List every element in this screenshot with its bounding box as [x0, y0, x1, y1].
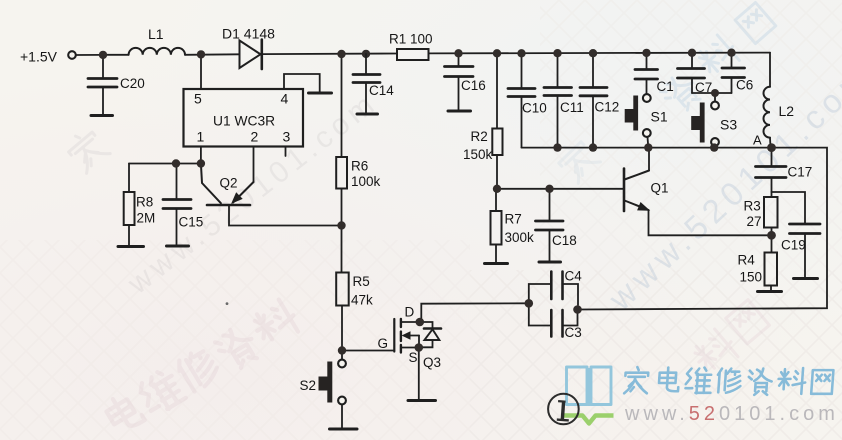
junction R2-R7 node — [493, 185, 501, 193]
junction C7-C6-S3 node — [711, 89, 719, 97]
svg-text:47k: 47k — [351, 293, 373, 308]
switch S1 bars — [633, 96, 638, 131]
capacitor C6 — [731, 53, 733, 68]
wire C7-C6 joint — [692, 92, 732, 94]
junction C14 top node — [362, 50, 370, 58]
junction C15 top node — [172, 159, 180, 167]
svg-text:+1.5V: +1.5V — [20, 49, 58, 65]
input terminal +1.5V — [68, 51, 76, 59]
watermark diagonal url center-right — [601, 55, 842, 318]
junction C6 top node — [727, 49, 735, 57]
wire U1 pin1 down — [200, 147, 202, 164]
svg-text:D1 4148: D1 4148 — [222, 26, 275, 42]
capacitor C19 — [772, 192, 806, 224]
svg-text:Q1: Q1 — [651, 181, 669, 196]
svg-text:www.520101.com: www.520101.com — [624, 403, 839, 425]
capacitor C1 — [646, 53, 648, 69]
svg-text:R1 100: R1 100 — [389, 32, 433, 47]
svg-text:1: 1 — [197, 129, 205, 145]
wire R1 to bus right — [429, 52, 771, 55]
junction C7 top node — [688, 49, 696, 57]
junction C4-C3 left node — [525, 299, 534, 308]
svg-text:C7: C7 — [695, 80, 712, 95]
svg-text:R4: R4 — [738, 253, 756, 268]
svg-text:C3: C3 — [565, 325, 582, 340]
transistor Q3 mosfet — [393, 319, 395, 352]
wire base rail — [497, 188, 624, 190]
resistor R4 — [765, 253, 778, 286]
wire D1 to R1 — [262, 53, 397, 56]
junction R3-R4 emitter node — [767, 231, 776, 240]
junction S3 bottom node — [710, 143, 718, 151]
junction C1 top node — [642, 49, 650, 57]
op-amp U1 box — [184, 89, 304, 147]
svg-text:S2: S2 — [300, 378, 317, 393]
resistor R8 — [128, 164, 130, 193]
svg-text:C19: C19 — [781, 238, 806, 253]
resistor R5 — [336, 273, 349, 306]
junction C12 bottom node — [589, 143, 597, 151]
junction C11 top node — [553, 49, 561, 57]
watermark diagonal url left — [121, 86, 384, 302]
diode D1 — [240, 41, 261, 69]
svg-text:100k: 100k — [351, 174, 381, 189]
junction C4-C3 right node — [573, 305, 582, 314]
inductor L2 — [769, 53, 771, 87]
resistor R2 — [496, 53, 498, 128]
svg-text:4: 4 — [281, 91, 289, 107]
capacitor C18 — [549, 189, 551, 221]
wire L1 to node — [185, 53, 239, 56]
switch S1 — [643, 94, 651, 102]
junction C18 top node — [545, 185, 553, 193]
capacitor C16 — [458, 53, 460, 66]
svg-text:C4: C4 — [565, 269, 583, 284]
wire node to L1 — [103, 54, 129, 56]
svg-text:2: 2 — [251, 129, 259, 145]
junction C12 top node — [589, 49, 597, 57]
wire input to node — [76, 54, 103, 56]
svg-text:C12: C12 — [595, 100, 620, 115]
logo chinese text — [624, 367, 833, 395]
junction Q3 source node — [415, 343, 424, 352]
svg-text:C1: C1 — [657, 79, 674, 94]
transistor Q1 — [623, 169, 626, 212]
junction R5-S2-gate node — [338, 346, 346, 354]
junction R6-R5 node — [337, 221, 345, 229]
watermark chinese outline bottom-left chain — [103, 297, 302, 435]
circled 1 — [548, 394, 579, 425]
capacitor C12 — [592, 53, 594, 87]
junction U1 pin5 node — [197, 50, 205, 58]
wire node rail left — [129, 163, 201, 165]
capacitor C15 — [176, 164, 178, 200]
logo green swoosh — [562, 416, 614, 424]
svg-text:S1: S1 — [651, 109, 668, 125]
svg-text:G: G — [378, 336, 389, 351]
junction R6 top node — [337, 50, 345, 58]
svg-text:R8: R8 — [136, 195, 153, 210]
junction R2 top node — [493, 49, 501, 57]
resistor R7 — [495, 189, 497, 211]
resistor R3 — [764, 197, 778, 228]
transistor Q2 — [201, 164, 221, 204]
svg-text:150: 150 — [740, 270, 763, 285]
wire node A to right edge down — [578, 148, 828, 310]
node A junction — [767, 143, 776, 152]
junction U1 pin1 node — [197, 159, 205, 167]
wire U1 pin3 stub — [285, 147, 287, 157]
svg-text:27: 27 — [747, 214, 762, 229]
junction Q3 drain node — [416, 318, 425, 327]
svg-text:3: 3 — [283, 129, 291, 145]
svg-text:A: A — [753, 133, 762, 148]
svg-text:C20: C20 — [120, 76, 145, 91]
svg-text:5: 5 — [194, 91, 202, 107]
svg-text:C15: C15 — [179, 215, 204, 230]
svg-text:C6: C6 — [736, 78, 753, 93]
svg-text:L1: L1 — [148, 26, 164, 42]
capacitor C4 — [529, 284, 551, 303]
svg-text:Q3: Q3 — [423, 355, 441, 370]
wire U1 pin4 to bar — [284, 74, 320, 92]
resistor R6 — [341, 54, 343, 157]
svg-text:C18: C18 — [552, 233, 577, 248]
svg-text:L2: L2 — [779, 103, 795, 119]
resistor R1 — [397, 49, 429, 60]
svg-text:R6: R6 — [351, 159, 368, 174]
wire R5 node to gate — [342, 350, 394, 352]
junction C16 top node — [454, 49, 462, 57]
capacitor C17 — [771, 148, 773, 166]
junction S1-Q1 collector node — [644, 143, 652, 151]
watermark chinese outline left edge — [64, 126, 111, 173]
svg-text:C17: C17 — [788, 165, 813, 180]
svg-text:300k: 300k — [505, 230, 535, 245]
svg-text:D: D — [405, 305, 415, 320]
capacitor C11 — [557, 53, 559, 87]
watermark chinese faint middle — [553, 136, 600, 183]
svg-text:150k: 150k — [463, 147, 493, 162]
junction C11 bottom node — [553, 143, 561, 151]
wire bus to U1 pin5 — [200, 55, 202, 90]
svg-text:C10: C10 — [522, 101, 547, 116]
svg-text:C16: C16 — [461, 78, 486, 93]
svg-text:R7: R7 — [505, 212, 522, 227]
diode body of Q3 — [420, 322, 433, 328]
capacitor C14 — [365, 54, 367, 74]
junction C20/input node — [99, 51, 107, 59]
capacitor C7 — [691, 53, 693, 68]
svg-text:R5: R5 — [353, 274, 370, 289]
svg-text:Q2: Q2 — [220, 176, 238, 191]
arrow Q3 — [402, 331, 411, 339]
watermark chinese outline bottom-right — [689, 300, 769, 379]
svg-text:U1 WC3R: U1 WC3R — [213, 114, 275, 129]
capacitor C20 — [102, 55, 104, 78]
svg-text:S3: S3 — [720, 117, 737, 133]
speck — [226, 302, 229, 305]
wire mid rail — [522, 147, 772, 149]
junction C10 top node — [517, 49, 525, 57]
watermark chinese outline top-right — [658, 2, 776, 115]
switch S3 — [711, 102, 719, 110]
capacitor C10 — [521, 53, 523, 88]
arrow Q2 — [233, 194, 242, 203]
switch S2 — [341, 351, 343, 360]
switch S2 bars — [327, 362, 332, 403]
svg-text:2M: 2M — [137, 211, 156, 226]
svg-text:S: S — [409, 350, 418, 365]
svg-text:C11: C11 — [560, 100, 584, 115]
capacitor C3 — [529, 303, 551, 325]
svg-text:R3: R3 — [744, 199, 761, 214]
switch S3 bars — [700, 103, 705, 143]
svg-text:R2: R2 — [471, 129, 488, 144]
logo book icon — [567, 367, 612, 406]
arrow Q1 emitter — [638, 203, 648, 210]
inductor L1 — [129, 48, 185, 55]
svg-text:C14: C14 — [369, 83, 394, 98]
